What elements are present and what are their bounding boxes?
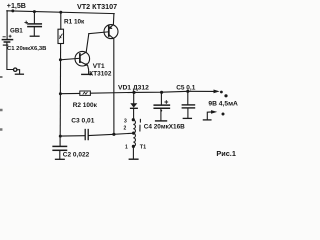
common bar under C1 <box>30 35 39 37</box>
svg-text:С4 20мкХ16В: С4 20мкХ16В <box>144 123 185 130</box>
node winding terminal 2 tap <box>132 132 135 135</box>
VT2 emitter lead <box>109 14 114 29</box>
transformer T1 winding 3-2 <box>133 120 135 133</box>
capacitor C4 plates <box>154 104 169 106</box>
transistor VT1 circle <box>75 51 90 66</box>
output minus terminal dot <box>222 113 225 116</box>
wire battery top lead <box>6 11 8 39</box>
wire battery bottom lead <box>7 42 13 69</box>
node top-left <box>11 9 14 12</box>
wire tap2 to C3 node <box>114 133 133 134</box>
common bar under C4 <box>156 120 167 122</box>
C4 polarity dot <box>160 110 162 112</box>
capacitor C1 plates <box>28 23 41 25</box>
core dash upper <box>139 119 141 122</box>
output minus arrowhead <box>211 110 217 114</box>
svg-text:Т1: Т1 <box>140 144 146 150</box>
R2 power mark <box>83 92 87 94</box>
capacitor C1 top lead <box>33 12 35 24</box>
wire R2 node to C2 node <box>59 94 61 136</box>
svg-text:С1 20мкХ6,3В: С1 20мкХ6,3В <box>7 46 46 52</box>
resistor R2 <box>80 91 91 95</box>
svg-text:Рис.1: Рис.1 <box>216 149 236 158</box>
common bar under C2 <box>56 158 65 160</box>
node R1 top <box>59 11 62 14</box>
resistor R1 <box>58 29 64 43</box>
svg-text:1: 1 <box>125 145 128 151</box>
C4 plus sign <box>165 101 168 104</box>
wire rail to R2 <box>60 92 79 94</box>
diode VD1 triangle <box>130 103 137 107</box>
C2 bottom lead <box>59 151 61 159</box>
wire winding1 bottom lead <box>132 146 134 158</box>
svg-text:КТ3102: КТ3102 <box>89 71 112 78</box>
svg-text:R2 100к: R2 100к <box>73 102 98 109</box>
wire R1 bottom to R2 node <box>59 44 61 94</box>
diode VD1 cathode bar <box>131 107 138 109</box>
svg-text:VT2 КТ3107: VT2 КТ3107 <box>77 2 117 11</box>
output plus blob <box>220 91 223 94</box>
switch contact circle <box>14 68 17 71</box>
VT2 collector <box>109 35 114 135</box>
VT1 emitter <box>80 61 89 73</box>
capacitor C3 plates <box>84 130 86 140</box>
battery GB1 short plate <box>4 41 9 43</box>
C5 bottom lead <box>187 108 189 117</box>
R1 power mark <box>59 34 62 39</box>
node C3 right junction <box>112 133 115 136</box>
svg-text:2: 2 <box>124 125 127 131</box>
svg-text:3: 3 <box>124 118 127 124</box>
svg-text:GB1: GB1 <box>10 28 23 35</box>
transistor VT2 circle <box>104 25 118 39</box>
transformer T1 winding 2-1 <box>133 134 135 147</box>
node R2 left <box>59 92 62 95</box>
capacitor C5 plates <box>182 104 194 106</box>
svg-text:9В 4,5мА: 9В 4,5мА <box>208 100 238 107</box>
VT2 emitter arrow <box>109 26 113 29</box>
VT1 collector <box>80 34 89 56</box>
wire C3 left segment <box>60 135 84 137</box>
output minus bar <box>203 119 211 121</box>
wire output minus stub <box>207 112 211 120</box>
wire switch stub <box>17 70 20 74</box>
svg-text:VD1 Д312: VD1 Д312 <box>118 84 149 91</box>
paper speck 2 <box>0 109 1 112</box>
wire C2 top lead <box>59 136 61 146</box>
svg-text:+1,5В: +1,5В <box>7 2 26 10</box>
common bar under T1 <box>129 158 138 160</box>
wire C3 right segment <box>89 134 114 135</box>
VT1 emitter arrow <box>84 63 88 66</box>
paper speck 1 <box>0 76 2 78</box>
common bar under VT1 emitter <box>82 73 92 75</box>
capacitor C2 plates <box>53 145 66 147</box>
VT1 base bar <box>79 54 81 62</box>
svg-text:С2 0,022: С2 0,022 <box>63 151 90 158</box>
wire VT1 collector to VT2 base <box>89 32 109 34</box>
wire VD1 anode lead <box>133 92 135 103</box>
wire R2 to VD1 node <box>90 91 187 93</box>
wire top rail +1.5V <box>7 11 114 14</box>
svg-text:R1 10к: R1 10к <box>64 19 85 26</box>
node winding terminal 1 <box>132 145 135 148</box>
wire VD1 to winding3 <box>133 108 135 119</box>
VT2 base bar <box>108 26 110 36</box>
output plus arrowhead <box>214 90 220 94</box>
common bar under C5 <box>183 117 191 119</box>
wire C4 top lead <box>160 92 162 104</box>
paper speck 3 <box>0 128 1 131</box>
node C5 top <box>186 90 189 93</box>
output plus terminal dot <box>224 94 227 97</box>
battery GB1 crossbar <box>3 44 7 46</box>
battery GB1 plus tick right <box>9 35 11 37</box>
wire C5 top lead <box>187 91 189 104</box>
battery GB1 plus tick left <box>3 36 5 38</box>
battery GB1 long plate <box>2 39 12 41</box>
node C4 top <box>160 91 163 94</box>
node VD1 top <box>132 91 135 94</box>
node C1 top <box>33 10 36 13</box>
svg-text:С5 0,1: С5 0,1 <box>176 85 196 92</box>
node VT1 base <box>59 58 62 61</box>
node C2 top <box>59 135 62 138</box>
C1 bottom lead <box>33 27 35 36</box>
node winding terminal 3 <box>132 118 135 121</box>
common bar under switch <box>15 73 23 75</box>
core dash lower <box>139 125 141 131</box>
wire output plus arrow line <box>188 90 215 92</box>
wire VT1 base lead <box>60 58 79 60</box>
svg-text:VT1: VT1 <box>93 63 105 70</box>
capacitor C1 plus sign <box>25 21 28 24</box>
svg-text:С3 0,01: С3 0,01 <box>71 118 94 125</box>
C4 bottom lead <box>160 109 162 120</box>
wire R1 top lead <box>60 12 62 29</box>
